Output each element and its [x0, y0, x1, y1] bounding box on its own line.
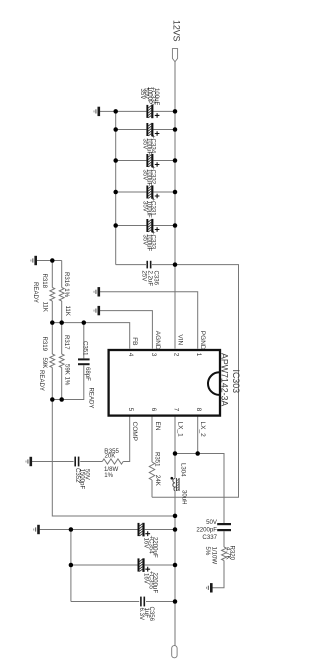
svg-text:R319: R319 [41, 337, 48, 352]
svg-text:12VS: 12VS [172, 20, 182, 42]
svg-text:59K: 59K [41, 358, 48, 369]
svg-text:READY: READY [38, 370, 45, 391]
svg-text:16V: 16V [142, 573, 149, 585]
svg-text:R351: R351 [153, 452, 160, 467]
svg-text:59K 1%: 59K 1% [64, 364, 71, 386]
svg-text:35V: 35V [142, 170, 149, 182]
svg-text:COMP: COMP [131, 422, 138, 442]
svg-text:AGND: AGND [154, 331, 161, 350]
svg-text:5: 5 [127, 408, 134, 412]
svg-text:7: 7 [173, 408, 180, 412]
svg-text:R317: R317 [63, 335, 70, 350]
svg-text:LX_2: LX_2 [199, 422, 206, 438]
svg-text:8: 8 [195, 408, 202, 412]
svg-text:1%: 1% [104, 472, 113, 479]
svg-text:C351: C351 [81, 341, 88, 356]
svg-text:24K: 24K [154, 475, 161, 486]
svg-text:LX_1: LX_1 [176, 422, 183, 438]
svg-text:2: 2 [173, 353, 180, 357]
svg-text:35V: 35V [139, 89, 146, 101]
svg-text:2200uF: 2200uF [151, 537, 158, 558]
svg-text:R318: R318 [41, 274, 48, 289]
svg-text:FB: FB [131, 337, 138, 345]
svg-text:3: 3 [150, 353, 157, 357]
svg-text:C337: C337 [202, 534, 217, 541]
svg-text:R316 1%: R316 1% [63, 272, 70, 298]
svg-text:READY: READY [87, 388, 94, 409]
svg-text:L304: L304 [179, 463, 186, 477]
svg-text:5%: 5% [204, 547, 211, 556]
svg-text:50V: 50V [206, 519, 218, 526]
svg-text:4.7K: 4.7K [225, 547, 232, 560]
svg-text:35V: 35V [142, 139, 149, 151]
svg-text:35V: 35V [142, 235, 149, 247]
svg-text:6.3V: 6.3V [138, 608, 145, 621]
svg-text:25V: 25V [140, 271, 147, 283]
svg-text:100uF: 100uF [153, 88, 160, 106]
svg-text:20K: 20K [105, 453, 116, 460]
svg-text:APW7142-3A: APW7142-3A [219, 353, 229, 406]
svg-text:2200uF: 2200uF [151, 573, 158, 594]
svg-text:35V: 35V [142, 201, 149, 213]
svg-text:1/10W: 1/10W [211, 547, 218, 565]
svg-text:6: 6 [150, 408, 157, 412]
svg-text:50V: 50V [83, 469, 90, 481]
svg-text:16V: 16V [142, 538, 149, 550]
svg-text:2200pF: 2200pF [196, 527, 217, 534]
svg-text:IC303: IC303 [231, 370, 241, 394]
svg-text:4: 4 [127, 353, 134, 357]
svg-text:11K: 11K [42, 302, 49, 312]
svg-text:VIN: VIN [176, 334, 183, 345]
svg-text:PGND: PGND [199, 331, 206, 350]
svg-text:11K: 11K [64, 306, 71, 316]
svg-text:1: 1 [195, 353, 202, 357]
svg-text:30uH: 30uH [180, 490, 187, 505]
svg-text:EN: EN [154, 422, 161, 431]
svg-text:READY: READY [32, 282, 39, 303]
svg-text:68pF: 68pF [84, 367, 91, 381]
